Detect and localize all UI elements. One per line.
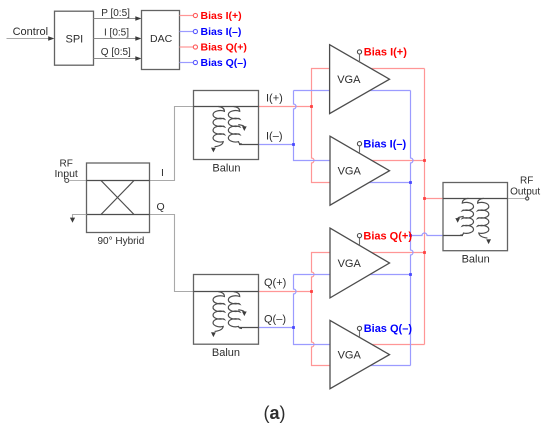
wire I[0:5] SPI to DAC [94, 36, 142, 40]
wire I hybrid to top balun [150, 107, 194, 181]
wire blue through VGA3 [294, 274, 411, 276]
junction node blue Q- [292, 326, 295, 329]
wire I(+) red balun to junction [259, 106, 312, 108]
svg-text:Q(–): Q(–) [264, 314, 286, 326]
wire blue to output balun with hop over red bus [411, 233, 444, 235]
svg-text:Q(+): Q(+) [264, 277, 286, 289]
wire blue VGA2 upper crossover [330, 160, 362, 162]
svg-text:Bias Q(–): Bias Q(–) [201, 57, 247, 69]
svg-text:Balun: Balun [212, 347, 240, 359]
wire blue through VGA1 [294, 90, 411, 92]
svg-text:RF: RF [520, 176, 533, 187]
junction node blue I- [292, 143, 295, 146]
wire red to output balun [425, 198, 444, 200]
terminal RF Input [55, 159, 87, 183]
op-amp VGA4 [330, 320, 390, 388]
svg-text:Bias I(+): Bias I(+) [201, 10, 242, 22]
terminal Bias I(-) VGA2 [357, 139, 406, 154]
DAC U2 [142, 11, 180, 70]
svg-text:Bias I(–): Bias I(–) [363, 139, 406, 151]
wire red VGA2 upper out [358, 160, 425, 162]
svg-text:P [0:5]: P [0:5] [101, 8, 130, 19]
wire blue VGA2 lower out [358, 182, 411, 184]
wire red VGA2 lower crossover [330, 182, 362, 184]
wire I(-) blue balun to junction [259, 144, 294, 146]
wire red I+ vertical feed with hop over blue [312, 69, 331, 183]
terminal Bias I(-) DAC output [180, 26, 242, 38]
wire blue VGA4 lower out [358, 365, 411, 367]
wire blue output bus vertical with hops [411, 91, 414, 366]
terminal Bias Q(-) DAC output [180, 57, 247, 69]
op-amp VGA1 [330, 45, 390, 114]
terminal Bias Q(-) VGA4 [357, 323, 412, 337]
wire Q hybrid to bottom balun [150, 215, 194, 292]
transformer balun T1 input I [194, 91, 259, 160]
svg-text:Bias Q(+): Bias Q(+) [363, 230, 412, 242]
wire red through VGA1 [330, 68, 425, 70]
wire red VGA4 upper out [358, 344, 425, 346]
svg-text:VGA: VGA [337, 74, 361, 86]
svg-text:SPI: SPI [66, 33, 84, 45]
svg-text:I [0:5]: I [0:5] [104, 28, 129, 39]
wire red VGA4 lower crossover [330, 365, 362, 367]
junction node blue bus balun [409, 234, 412, 237]
terminal Bias I(+) VGA1 [357, 47, 407, 62]
wire red output bus vertical [424, 69, 426, 345]
svg-text:VGA: VGA [338, 258, 362, 270]
terminal Bias Q(+) DAC output [180, 41, 247, 53]
svg-text:I: I [161, 167, 164, 179]
terminal RF Output [508, 176, 540, 200]
svg-text:Output: Output [510, 186, 540, 197]
ground termination of hybrid isolated port [70, 215, 87, 223]
junction node red Q+ [310, 290, 313, 293]
wire red Q+ vertical feed with hops [312, 253, 331, 366]
svg-text:(a): (a) [264, 403, 286, 423]
svg-text:DAC: DAC [150, 33, 173, 45]
90 degree hybrid coupler [87, 163, 150, 233]
wire Control input [7, 36, 55, 40]
wire Q(-) blue balun to junction [259, 327, 294, 329]
terminal Bias I(+) DAC output [180, 10, 242, 22]
junction node red bus VGA3 [423, 251, 426, 254]
SPI U1 [55, 11, 94, 65]
svg-text:VGA: VGA [338, 350, 362, 362]
svg-text:Q: Q [157, 201, 165, 213]
svg-text:Bias I(–): Bias I(–) [201, 26, 242, 38]
svg-text:Bias Q(–): Bias Q(–) [364, 323, 413, 335]
svg-text:I(+): I(+) [266, 92, 283, 104]
svg-text:Balun: Balun [462, 254, 490, 266]
junction node blue bus VGA3 [409, 273, 412, 276]
wire blue VGA4 upper crossover [330, 344, 362, 346]
svg-text:VGA: VGA [338, 166, 362, 178]
transformer balun T2 input Q [194, 275, 259, 345]
wire Q(+) red balun to junction [259, 291, 312, 293]
svg-text:Balun: Balun [212, 162, 240, 174]
svg-text:Control: Control [13, 26, 48, 38]
wire red through VGA3 [330, 252, 425, 254]
junction node red bus balun [423, 197, 426, 200]
junction node red bus VGA2 [423, 159, 426, 162]
svg-text:Bias Q(+): Bias Q(+) [201, 41, 247, 53]
wire blue Q- vertical feed with hop [294, 275, 331, 345]
terminal Bias Q(+) VGA3 [357, 230, 412, 245]
wire P[0:5] SPI to DAC [94, 16, 142, 20]
svg-text:Input: Input [55, 168, 78, 180]
wire blue I- vertical feed with hop over red [294, 91, 331, 161]
op-amp VGA2 [330, 136, 390, 205]
svg-text:I(–): I(–) [266, 131, 283, 143]
svg-text:90° Hybrid: 90° Hybrid [98, 236, 145, 247]
transformer balun T3 output [443, 183, 508, 251]
svg-text:Bias I(+): Bias I(+) [364, 47, 407, 59]
junction node red I+ [310, 105, 313, 108]
op-amp VGA3 [330, 228, 390, 298]
svg-text:Q [0:5]: Q [0:5] [101, 47, 131, 58]
junction node blue bus VGA2 [409, 181, 412, 184]
wire Q[0:5] SPI to DAC [94, 56, 142, 60]
